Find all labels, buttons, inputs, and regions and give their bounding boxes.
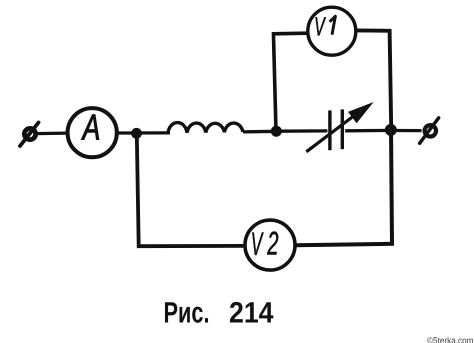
svg-text:V: V (251, 225, 264, 262)
capacitor C1 right plate (341, 109, 344, 149)
svg-text:Рис.: Рис. (164, 297, 210, 330)
wire V1 to node C (right branch) (356, 30, 391, 128)
wire terminal-left to ammeter (36, 131, 67, 135)
wire capacitor to node C (345, 129, 392, 133)
capacitor C1 left plate (328, 110, 331, 150)
wire node B up to V1 (left branch) (274, 33, 307, 131)
voltmeter V2 (245, 220, 295, 270)
wire node A down to bottom (left leg) (137, 134, 246, 246)
svg-text:A: A (81, 106, 100, 147)
wire node C to terminal right (392, 129, 422, 132)
caption: Рис. 214 (164, 297, 275, 330)
node B (junction dot) (271, 126, 282, 137)
wire V2 to node C (right leg) (295, 128, 392, 245)
wire inductor to node B (243, 130, 278, 134)
svg-text:214: 214 (229, 297, 274, 330)
node A (junction dot) (131, 128, 142, 139)
node C (junction dot) (385, 124, 397, 136)
svg-text:2: 2 (267, 225, 279, 262)
variable capacitor arrow (306, 102, 373, 152)
ammeter A (68, 106, 117, 157)
voltmeter V1 (308, 7, 356, 55)
svg-text:V: V (314, 11, 326, 41)
terminal left (20, 123, 39, 147)
inductor L1 (168, 123, 243, 133)
wire ammeter to node A (117, 131, 170, 134)
wire node B to capacitor (277, 129, 327, 133)
svg-text:©5terka.com: ©5terka.com (427, 335, 474, 343)
terminal right (420, 118, 439, 144)
